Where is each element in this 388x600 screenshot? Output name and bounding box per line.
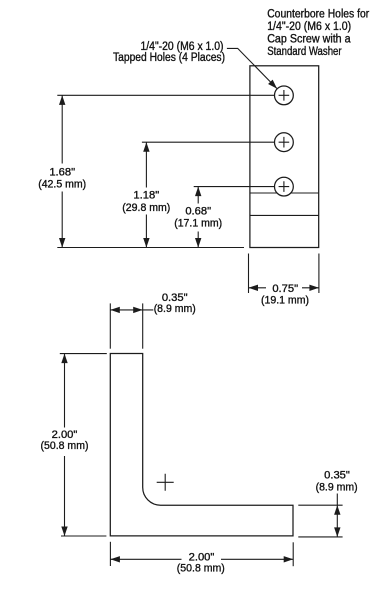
svg-text:(8.9 mm): (8.9 mm): [154, 303, 196, 315]
svg-text:(8.9 mm): (8.9 mm): [316, 482, 358, 494]
extension line part bottom: [57, 247, 244, 249]
svg-text:0.75": 0.75": [272, 283, 298, 295]
svg-text:2.00": 2.00": [52, 429, 78, 441]
center mark: [157, 474, 174, 491]
svg-text:Cap Screw with a: Cap Screw with a: [267, 34, 351, 46]
side view outline: [250, 66, 319, 248]
leader tapped holes: [227, 48, 279, 90]
svg-text:1.68": 1.68": [49, 166, 75, 178]
leg top surface line: [250, 214, 319, 216]
extension line hole 1: [57, 94, 274, 96]
svg-text:(50.8 mm): (50.8 mm): [177, 563, 225, 575]
counterbore hole 2: [275, 133, 294, 152]
extension line hole 2: [142, 141, 275, 143]
svg-text:Standard Washer: Standard Washer: [267, 46, 342, 58]
bottom view outline: [110, 354, 293, 536]
svg-text:Counterbore Holes for: Counterbore Holes for: [267, 9, 369, 21]
svg-text:0.35": 0.35": [324, 470, 350, 482]
dimension 1.68": [38, 95, 86, 247]
svg-text:(17.1 mm): (17.1 mm): [174, 217, 222, 229]
svg-text:(42.5 mm): (42.5 mm): [38, 178, 86, 190]
svg-text:2.00": 2.00": [189, 551, 215, 563]
label counterbore holes: [267, 9, 369, 59]
svg-text:(19.1 mm): (19.1 mm): [261, 295, 309, 307]
extension line hole 3: [194, 186, 275, 188]
dimension 0.35" right: [298, 470, 358, 537]
dimension 0.68": [174, 187, 222, 248]
svg-text:1.18": 1.18": [133, 189, 159, 201]
dimension 1.18": [122, 142, 170, 247]
svg-text:(29.8 mm): (29.8 mm): [122, 202, 170, 214]
svg-text:(50.8 mm): (50.8 mm): [41, 440, 89, 452]
fillet tangent line: [250, 192, 319, 194]
svg-text:0.68": 0.68": [185, 206, 211, 218]
dimension 0.75": [249, 254, 319, 307]
dimension 2.00" left: [41, 354, 107, 536]
dimension 0.35" top: [110, 292, 196, 349]
label tapped holes: [113, 41, 225, 64]
svg-text:Tapped Holes (4 Places): Tapped Holes (4 Places): [113, 52, 225, 64]
dimension 2.00" bottom: [110, 542, 293, 575]
counterbore hole 1: [275, 86, 294, 105]
svg-text:1/4"-20 (M6 x 1.0): 1/4"-20 (M6 x 1.0): [267, 21, 351, 33]
counterbore hole 3: [275, 177, 294, 196]
